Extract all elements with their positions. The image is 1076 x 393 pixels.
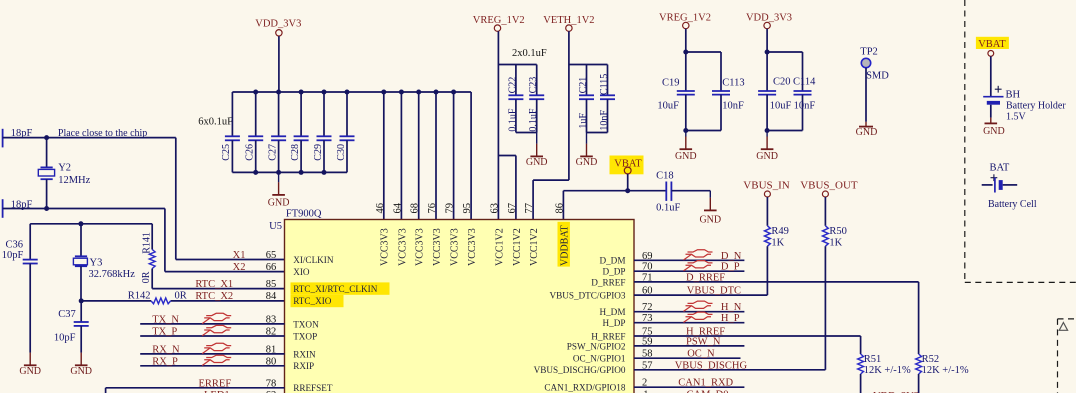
svg-text:83: 83	[266, 314, 277, 325]
pin 62 LED1 (cut off)	[204, 390, 276, 393]
wire jog VREG_1V2 to pin 67	[498, 156, 516, 220]
svg-text:C115: C115	[599, 74, 610, 95]
junction dot Y3 top	[78, 221, 83, 226]
ground under C20	[756, 131, 778, 163]
svg-text:68: 68	[410, 203, 421, 214]
svg-text:70: 70	[642, 262, 653, 273]
svg-text:TXOP: TXOP	[293, 331, 317, 341]
junction dots Y2	[44, 135, 49, 211]
crystal Y2 12MHz	[38, 138, 90, 209]
pin 84 RTC_XIO / net RTC_X2	[195, 291, 331, 306]
svg-text:78: 78	[266, 378, 277, 389]
ground under C37	[70, 353, 92, 377]
svg-text:VCC3V3: VCC3V3	[450, 228, 461, 266]
svg-text:OC_N: OC_N	[687, 349, 715, 360]
pin 80 RXIP / net RX_P	[140, 356, 314, 371]
svg-text:BAT: BAT	[990, 163, 1010, 174]
svg-text:VDD_3V3: VDD_3V3	[746, 13, 792, 24]
capacitor C23 0.1uF	[528, 65, 544, 133]
svg-text:U5: U5	[269, 221, 282, 232]
svg-text:6x0.1uF: 6x0.1uF	[198, 116, 233, 127]
wire RTC top rail	[30, 223, 152, 225]
pin 70 D_DP / net D_P	[603, 262, 745, 277]
pin 65 XI/CLKIN / net X1	[233, 250, 334, 265]
power port VETH_1V2	[543, 15, 594, 180]
svg-text:72: 72	[642, 302, 653, 313]
wire C20/C114 bottom bus	[767, 130, 802, 132]
ground under C22/C23	[526, 133, 548, 169]
svg-text:10uF: 10uF	[770, 101, 792, 112]
svg-text:RTC_XIO: RTC_XIO	[293, 296, 332, 306]
wire R50 to VBUS_DISCHG	[824, 246, 826, 370]
svg-text:R49: R49	[771, 226, 789, 237]
svg-text:VDD_3V3: VDD_3V3	[255, 19, 301, 30]
svg-text:VCC3V3: VCC3V3	[467, 228, 478, 266]
svg-text:H_DM: H_DM	[599, 307, 625, 317]
pin 85 RTC_XI/RTC_CLKIN / net RTC_X1	[195, 279, 377, 294]
svg-text:C19: C19	[662, 77, 680, 88]
svg-text:VBUS_OUT: VBUS_OUT	[800, 179, 858, 191]
pin 2 CAN1_RXD/GPIO18 / net CAN1_RXD	[544, 378, 744, 393]
svg-text:X1: X1	[233, 250, 246, 261]
svg-text:TP2: TP2	[860, 47, 878, 58]
svg-text:GND: GND	[19, 366, 41, 377]
svg-text:C22: C22	[507, 77, 518, 94]
svg-text:64: 64	[392, 202, 403, 213]
power port VDD_3V3 (right)	[746, 13, 792, 92]
svg-text:73: 73	[642, 313, 653, 324]
capacitor C36 10pF	[2, 224, 38, 353]
dashed boundary bottom-right section	[1058, 319, 1076, 393]
svg-text:GND: GND	[699, 215, 721, 226]
pin 83 TXON / net TX_N	[140, 314, 319, 329]
net label VBAT battery (highlighted)	[976, 37, 1009, 96]
svg-text:79: 79	[445, 203, 456, 214]
svg-text:58: 58	[642, 349, 653, 360]
svg-text:C28: C28	[290, 144, 301, 161]
capacitor 18pF (top, edge stub)	[3, 128, 33, 147]
svg-text:RXIN: RXIN	[293, 349, 316, 359]
capacitor C20 10uF	[758, 77, 791, 131]
pin 60 VBUS_DTC/GPIO3 / net VBUS_DTC	[549, 286, 767, 301]
wire C22/C23 top bus	[498, 64, 536, 66]
wire C22/C23 bottom bus	[516, 132, 537, 134]
svg-text:12K +/-1%: 12K +/-1%	[922, 365, 969, 376]
svg-text:VCC1V2: VCC1V2	[494, 228, 505, 266]
svg-text:D_DM: D_DM	[599, 256, 625, 266]
svg-text:65: 65	[266, 250, 277, 261]
svg-text:VCC1V2: VCC1V2	[512, 228, 523, 266]
capacitor C114 10nF	[767, 52, 816, 131]
svg-text:TX_P: TX_P	[152, 327, 177, 338]
pin 78 RREFSET / net ERREF	[106, 378, 333, 393]
svg-text:VCC3V3: VCC3V3	[432, 228, 443, 266]
capacitor C115 10nF	[599, 65, 615, 133]
svg-text:RX_N: RX_N	[152, 344, 180, 355]
svg-text:R52: R52	[922, 354, 940, 365]
net label VBAT (highlighted)	[610, 156, 644, 191]
svg-text:RX_P: RX_P	[152, 356, 178, 367]
svg-text:1K: 1K	[829, 238, 842, 249]
capacitor C18 0.1uF	[656, 170, 680, 213]
svg-text:GND: GND	[983, 126, 1005, 137]
svg-text:1.5V: 1.5V	[1006, 112, 1027, 123]
svg-text:R50: R50	[829, 226, 847, 237]
pin 82 TXOP / net TX_P	[140, 327, 317, 342]
svg-text:0.1uF: 0.1uF	[528, 108, 539, 132]
svg-text:VCC3V3: VCC3V3	[415, 228, 426, 266]
svg-text:H_RREF: H_RREF	[591, 331, 625, 341]
svg-text:0R: 0R	[175, 290, 187, 301]
wire C19/C113 bottom bus	[686, 130, 721, 132]
ground under C21	[576, 133, 598, 169]
differential pair markers TX/RX	[202, 313, 231, 365]
svg-text:GND: GND	[675, 151, 697, 162]
resistor R52 12K	[916, 282, 969, 393]
power port VBUS_OUT	[800, 179, 858, 226]
wire VDDBAT rail	[563, 191, 666, 220]
wire RTC_X1 net	[152, 288, 284, 290]
differential pair markers USB	[684, 250, 713, 323]
svg-text:60: 60	[642, 286, 653, 297]
wire X2 net	[3, 209, 285, 272]
svg-text:VBUS_DISCHG/GPIO0: VBUS_DISCHG/GPIO0	[534, 365, 626, 375]
svg-text:C113: C113	[722, 77, 744, 88]
capacitor C28 0.1uF	[290, 92, 309, 172]
pin 69 D_DM / net D_N	[599, 251, 744, 266]
svg-text:2: 2	[642, 378, 647, 389]
svg-text:RTC_X2: RTC_X2	[195, 291, 233, 302]
IC U5 FT900Q body	[269, 208, 634, 393]
svg-text:VCC3V3: VCC3V3	[397, 228, 408, 266]
revision triangle marker	[1059, 323, 1067, 331]
svg-text:H_P: H_P	[721, 313, 740, 324]
svg-text:C37: C37	[58, 309, 76, 320]
power port VREG_1V2 (right)	[659, 13, 711, 92]
svg-text:2x0.1uF: 2x0.1uF	[512, 48, 547, 59]
ground under C36	[19, 353, 41, 377]
svg-text:46: 46	[375, 203, 386, 214]
svg-text:C25: C25	[221, 144, 232, 161]
power port VREG_1V2 (left)	[473, 15, 525, 219]
ground under TP2	[856, 122, 878, 138]
ground under C19	[675, 131, 697, 163]
svg-text:10uF: 10uF	[657, 101, 679, 112]
battery holder BH 1.5V	[983, 86, 1066, 123]
capacitor C22 0.1uF	[507, 65, 523, 133]
resistor R51 12K	[858, 336, 911, 393]
ground under battery holder	[983, 118, 1005, 138]
svg-text:12MHz: 12MHz	[58, 175, 90, 186]
capacitor C21 1uF	[578, 65, 594, 133]
dashed boundary battery section	[965, 0, 1076, 282]
svg-text:66: 66	[266, 262, 277, 273]
capacitor C37 10pF	[54, 301, 89, 353]
svg-text:81: 81	[266, 344, 277, 355]
svg-text:D_RREF: D_RREF	[686, 272, 725, 283]
svg-text:10nF: 10nF	[599, 110, 610, 131]
resistor R142 0R	[128, 290, 187, 304]
svg-text:67: 67	[507, 203, 518, 214]
wire VCC3V3 top bus	[232, 91, 471, 93]
svg-text:Y3: Y3	[90, 258, 103, 269]
highlighted pin name VDDBAT	[558, 222, 570, 267]
svg-text:86: 86	[554, 203, 565, 214]
svg-text:0R: 0R	[141, 271, 152, 283]
pin 75 H_RREF / net H_RREF	[591, 327, 860, 342]
svg-text:10pF: 10pF	[54, 333, 76, 344]
svg-text:C114: C114	[793, 77, 816, 88]
svg-text:0.1uF: 0.1uF	[507, 108, 518, 132]
wire R49 to VBUS_DTC	[766, 246, 768, 295]
svg-text:RTC_X1: RTC_X1	[195, 279, 233, 290]
capacitor C30 0.1uF	[336, 92, 355, 172]
highlighted pin name RTC_XI/RTC_CLKIN	[291, 282, 390, 294]
svg-text:10nF: 10nF	[722, 101, 744, 112]
svg-text:10nF: 10nF	[794, 101, 816, 112]
svg-text:GND: GND	[526, 157, 548, 168]
svg-text:GND: GND	[856, 127, 878, 138]
svg-text:CAN1_RXD: CAN1_RXD	[678, 378, 733, 389]
svg-text:0.1uF: 0.1uF	[656, 203, 680, 214]
svg-text:1K: 1K	[771, 238, 784, 249]
power port VBUS_IN	[743, 179, 790, 226]
svg-text:R142: R142	[128, 291, 151, 302]
junction dot VBAT	[625, 188, 630, 193]
svg-text:12K +/-1%: 12K +/-1%	[864, 365, 911, 376]
svg-text:D_N: D_N	[721, 251, 742, 262]
svg-text:C27: C27	[267, 144, 278, 161]
svg-text:GND: GND	[70, 366, 92, 377]
ground right of C18	[699, 191, 721, 226]
svg-text:FT900Q: FT900Q	[286, 208, 322, 219]
svg-text:VDDBAT: VDDBAT	[559, 225, 570, 266]
junction dots on VCC3V3 buses	[253, 90, 456, 175]
svg-text:XIO: XIO	[293, 267, 310, 277]
svg-text:D_P: D_P	[721, 262, 740, 273]
capacitor C113 10nF	[686, 52, 745, 131]
svg-text:Battery Cell: Battery Cell	[988, 199, 1037, 210]
svg-text:VBUS_DTC: VBUS_DTC	[687, 286, 741, 297]
svg-text:TXON: TXON	[293, 319, 319, 329]
capacitor C19 10uF	[657, 77, 694, 130]
pin 73 H_DP / net H_P	[603, 313, 745, 328]
svg-text:76: 76	[427, 203, 438, 214]
svg-text:Battery Holder: Battery Holder	[1006, 100, 1066, 111]
svg-text:C23: C23	[528, 77, 539, 94]
svg-text:10pF: 10pF	[2, 250, 24, 261]
capacitor 18pF (lower, edge stub)	[3, 199, 33, 218]
svg-text:80: 80	[266, 356, 277, 367]
svg-text:H_N: H_N	[721, 302, 742, 313]
pin 66 XIO / net X2	[233, 262, 310, 277]
pin 58 OC_N/GPIO1 / net OC_N	[573, 349, 741, 364]
svg-text:C26: C26	[245, 144, 256, 161]
svg-text:VBUS_DTC/GPIO3: VBUS_DTC/GPIO3	[549, 291, 625, 301]
highlighted pin name RTC_XIO	[291, 295, 344, 307]
svg-text:PSW_N: PSW_N	[686, 336, 721, 347]
svg-text:RTC_XI/RTC_CLKIN: RTC_XI/RTC_CLKIN	[293, 284, 378, 294]
wire VREG_1V2 down to pin 63	[497, 31, 499, 219]
svg-text:C18: C18	[656, 170, 674, 181]
capacitor C29 0.1uF	[313, 92, 332, 172]
svg-text:BH: BH	[1006, 89, 1021, 100]
svg-text:GND: GND	[268, 198, 290, 209]
svg-text:R141: R141	[141, 232, 152, 254]
svg-text:TX_N: TX_N	[152, 314, 179, 325]
svg-text:C30: C30	[336, 144, 347, 161]
svg-text:VBUS_DISCHG: VBUS_DISCHG	[675, 360, 748, 371]
wire cap bank bottom bus	[232, 171, 347, 173]
wires chip top VCC pins	[384, 92, 471, 220]
svg-text:RREFSET: RREFSET	[293, 383, 333, 393]
svg-text:77: 77	[524, 203, 535, 214]
svg-text:CAN1_RXD/GPIO18: CAN1_RXD/GPIO18	[544, 383, 626, 393]
power port VDD_3V3 (top centre)	[255, 19, 301, 92]
svg-text:82: 82	[266, 327, 277, 338]
svg-text:Y2: Y2	[58, 163, 71, 174]
svg-text:VCC3V3: VCC3V3	[380, 228, 391, 266]
wire C21/C115 top bus	[569, 64, 608, 66]
svg-text:69: 69	[642, 251, 653, 262]
junction dot RTC_X2	[79, 298, 84, 303]
svg-text:95: 95	[462, 203, 473, 214]
pin 81 RXIN / net RX_N	[140, 344, 316, 359]
svg-text:VBUS_IN: VBUS_IN	[743, 179, 790, 191]
resistor R49 1K	[765, 226, 789, 249]
svg-text:1: 1	[643, 390, 648, 393]
junction dots C19 group	[683, 50, 688, 134]
svg-text:C21: C21	[578, 77, 589, 94]
test point TP2 SMD	[860, 47, 889, 122]
svg-text:OC_N/GPIO1: OC_N/GPIO1	[573, 354, 626, 364]
capacitor C25 0.1uF	[221, 92, 240, 172]
pin 59 PSW_N/GPIO2 / net PSW_N	[567, 336, 745, 351]
wire X1 net	[3, 138, 285, 260]
svg-text:63: 63	[489, 203, 500, 214]
svg-text:GND: GND	[756, 151, 778, 162]
svg-text:CAM_D0: CAM_D0	[687, 390, 729, 393]
svg-text:84: 84	[266, 291, 277, 302]
svg-text:XI/CLKIN: XI/CLKIN	[293, 255, 334, 265]
crystal Y3 32.768kHz	[73, 224, 135, 301]
svg-text:VBAT: VBAT	[978, 39, 1006, 50]
svg-text:59: 59	[642, 336, 653, 347]
svg-text:VCC1V2: VCC1V2	[529, 228, 540, 266]
svg-text:ERREF: ERREF	[199, 378, 232, 389]
svg-text:GND: GND	[576, 157, 598, 168]
svg-text:C29: C29	[313, 144, 324, 161]
svg-text:85: 85	[266, 279, 277, 290]
pin 71 D_RREF / net D_RREF	[591, 272, 918, 287]
capacitor C27 0.1uF	[267, 92, 286, 172]
svg-text:71: 71	[642, 272, 653, 283]
resistor R50 1K	[823, 226, 847, 249]
svg-text:H_DP: H_DP	[603, 318, 626, 328]
junction dots C20 group	[765, 50, 770, 134]
resistor R141 0R	[141, 224, 155, 289]
wire C18 to gnd	[671, 190, 710, 192]
ground under cap bank	[268, 172, 290, 208]
pin 57 VBUS_DISCHG/GPIO0 / net VBUS_DISCHG	[534, 360, 826, 375]
battery cell BAT	[982, 163, 1037, 210]
svg-text:D_DP: D_DP	[603, 267, 626, 277]
wire RTC_X2 net	[81, 300, 284, 302]
pin 1 CAM_D0 (cut off)	[643, 390, 728, 393]
chip top pin numbers and names	[375, 202, 571, 266]
svg-text:RXIP: RXIP	[293, 361, 314, 371]
svg-text:57: 57	[642, 360, 653, 371]
pin 72 H_DM / net H_N	[599, 302, 744, 317]
svg-text:R51: R51	[864, 354, 882, 365]
svg-text:1uF: 1uF	[578, 113, 589, 129]
capacitor C26 0.1uF	[245, 92, 264, 172]
svg-text:X2: X2	[233, 262, 246, 273]
svg-text:PSW_N/GPIO2: PSW_N/GPIO2	[567, 341, 626, 351]
wire C21/C115 bottom bus	[587, 132, 608, 134]
svg-text:C20: C20	[773, 77, 791, 88]
svg-text:SMD: SMD	[866, 70, 889, 81]
svg-text:32.768kHz: 32.768kHz	[89, 269, 136, 280]
svg-text:D_RREF: D_RREF	[591, 277, 625, 287]
wire VETH to pin 77	[533, 180, 569, 219]
